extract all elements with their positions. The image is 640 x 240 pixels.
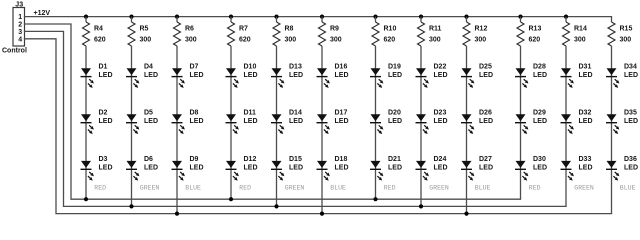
svg-text:4: 4 bbox=[18, 36, 22, 43]
wire R11 to GREEN bus bbox=[420, 46, 422, 206]
wire pin 3 to GREEN bus bbox=[25, 31, 567, 206]
svg-text:D23: D23 bbox=[434, 110, 447, 117]
svg-text:LED: LED bbox=[479, 118, 493, 125]
svg-text:GREEN: GREEN bbox=[140, 184, 160, 191]
svg-text:LED: LED bbox=[533, 72, 547, 79]
wire pin 2 to RED bus bbox=[25, 24, 521, 199]
wire R8 to GREEN bus bbox=[276, 46, 278, 206]
svg-text:LED: LED bbox=[624, 118, 638, 125]
wire rail to resistor R8 bbox=[276, 17, 278, 22]
svg-text:LED: LED bbox=[434, 118, 448, 125]
svg-text:D8: D8 bbox=[190, 110, 199, 117]
svg-text:LED: LED bbox=[144, 118, 158, 125]
wire R10 to RED bus bbox=[375, 46, 377, 199]
svg-text:LED: LED bbox=[624, 165, 638, 172]
svg-text:R8: R8 bbox=[285, 26, 294, 33]
LED D15 bbox=[271, 156, 303, 181]
LED D26 bbox=[461, 110, 493, 135]
wire rail to resistor R6 bbox=[176, 17, 178, 22]
junction dot D3 cathode on RED bus bbox=[84, 197, 88, 201]
svg-text:LED: LED bbox=[289, 118, 303, 125]
LED D30 bbox=[515, 156, 547, 181]
svg-text:LED: LED bbox=[190, 118, 204, 125]
svg-text:D3: D3 bbox=[99, 156, 108, 163]
svg-text:D14: D14 bbox=[289, 110, 302, 117]
junction dot column 9 on +12V rail bbox=[464, 15, 468, 19]
wire pin 4 to BLUE bus bbox=[25, 39, 612, 214]
svg-text:D33: D33 bbox=[579, 156, 592, 163]
svg-text:300: 300 bbox=[429, 37, 441, 44]
svg-text:D28: D28 bbox=[533, 63, 546, 70]
svg-text:D36: D36 bbox=[624, 156, 637, 163]
svg-text:LED: LED bbox=[434, 165, 448, 172]
resistor R11 value 300 bbox=[418, 22, 442, 46]
resistor R13 value 620 bbox=[517, 22, 541, 46]
svg-text:LED: LED bbox=[99, 72, 113, 79]
LED D31 bbox=[561, 63, 593, 88]
LED D14 bbox=[271, 110, 303, 135]
LED D7 bbox=[172, 63, 204, 88]
svg-text:D11: D11 bbox=[244, 110, 257, 117]
resistor R5 value 300 bbox=[128, 22, 151, 46]
wire R4 to RED bus bbox=[85, 46, 87, 199]
svg-text:D10: D10 bbox=[244, 63, 257, 70]
svg-text:D19: D19 bbox=[388, 63, 401, 70]
svg-text:D27: D27 bbox=[479, 156, 492, 163]
LED D8 bbox=[172, 110, 204, 135]
svg-text:R7: R7 bbox=[239, 26, 248, 33]
wire R7 to RED bus bbox=[230, 46, 232, 199]
wire R14 to GREEN bus bbox=[565, 46, 567, 206]
svg-text:GREEN: GREEN bbox=[574, 184, 594, 191]
junction dot column 1 on +12V rail bbox=[84, 15, 88, 19]
svg-text:R4: R4 bbox=[94, 26, 103, 33]
junction dot column 2 on +12V rail bbox=[129, 15, 133, 19]
resistor R6 value 300 bbox=[174, 22, 197, 46]
svg-text:D2: D2 bbox=[99, 110, 108, 117]
svg-text:D5: D5 bbox=[144, 110, 153, 117]
svg-text:D12: D12 bbox=[244, 156, 257, 163]
LED D23 bbox=[416, 110, 448, 135]
svg-text:620: 620 bbox=[94, 37, 106, 44]
svg-text:D1: D1 bbox=[99, 63, 108, 70]
LED D6 bbox=[126, 156, 158, 181]
svg-text:LED: LED bbox=[190, 72, 204, 79]
svg-text:R9: R9 bbox=[330, 26, 339, 33]
svg-text:LED: LED bbox=[388, 118, 402, 125]
svg-text:LED: LED bbox=[579, 118, 593, 125]
svg-text:D25: D25 bbox=[479, 63, 492, 70]
junction dot column 4 on +12V rail bbox=[229, 15, 233, 19]
junction dot D12 cathode on RED bus bbox=[229, 197, 233, 201]
resistor R7 value 620 bbox=[228, 22, 251, 46]
LED D29 bbox=[515, 110, 547, 135]
LED D28 bbox=[515, 63, 547, 88]
LED D16 bbox=[317, 63, 349, 88]
svg-text:D17: D17 bbox=[335, 110, 348, 117]
LED D35 bbox=[606, 110, 638, 135]
svg-text:1: 1 bbox=[18, 14, 22, 21]
wire rail to resistor R12 bbox=[466, 17, 468, 22]
junction dot D6 cathode on GREEN bus bbox=[129, 204, 133, 208]
svg-text:+12V: +12V bbox=[34, 10, 51, 17]
LED D20 bbox=[370, 110, 402, 135]
svg-text:LED: LED bbox=[144, 165, 158, 172]
svg-text:RED: RED bbox=[529, 184, 541, 191]
svg-text:D26: D26 bbox=[479, 110, 492, 117]
wire rail to resistor R13 bbox=[520, 17, 522, 22]
svg-text:D31: D31 bbox=[579, 63, 592, 70]
svg-text:R10: R10 bbox=[384, 26, 397, 33]
wire R12 to BLUE bus bbox=[466, 46, 468, 214]
LED D13 bbox=[271, 63, 303, 88]
wire rail to resistor R5 bbox=[131, 17, 133, 22]
LED D22 bbox=[416, 63, 448, 88]
junction dot column 5 on +12V rail bbox=[274, 15, 278, 19]
resistor R15 value 300 bbox=[608, 22, 632, 46]
LED D1 bbox=[81, 63, 113, 88]
junction dot D27 cathode on BLUE bus bbox=[464, 212, 468, 216]
svg-text:LED: LED bbox=[479, 72, 493, 79]
wire rail to resistor R14 bbox=[565, 17, 567, 22]
wire rail to resistor R15 bbox=[611, 17, 613, 22]
svg-text:300: 300 bbox=[330, 37, 342, 44]
junction dot D21 cathode on RED bus bbox=[373, 197, 377, 201]
svg-text:300: 300 bbox=[140, 37, 152, 44]
svg-text:LED: LED bbox=[579, 72, 593, 79]
svg-text:BLUE: BLUE bbox=[475, 184, 491, 191]
svg-text:LED: LED bbox=[99, 165, 113, 172]
wire R9 to BLUE bus bbox=[321, 46, 323, 214]
LED D5 bbox=[126, 110, 158, 135]
svg-text:LED: LED bbox=[99, 118, 113, 125]
wire rail to resistor R7 bbox=[230, 17, 232, 22]
svg-text:D16: D16 bbox=[335, 63, 348, 70]
LED D10 bbox=[226, 63, 258, 88]
wire rail to resistor R9 bbox=[321, 17, 323, 22]
LED D24 bbox=[416, 156, 448, 181]
svg-text:300: 300 bbox=[285, 37, 297, 44]
svg-text:D6: D6 bbox=[144, 156, 153, 163]
svg-text:GREEN: GREEN bbox=[429, 184, 449, 191]
wire rail to resistor R10 bbox=[375, 17, 377, 22]
svg-text:620: 620 bbox=[529, 37, 541, 44]
svg-text:D4: D4 bbox=[144, 63, 153, 70]
svg-text:D32: D32 bbox=[579, 110, 592, 117]
svg-text:D13: D13 bbox=[289, 63, 302, 70]
svg-text:J3: J3 bbox=[15, 1, 23, 8]
svg-text:RED: RED bbox=[239, 184, 251, 191]
svg-text:LED: LED bbox=[434, 72, 448, 79]
svg-text:D9: D9 bbox=[190, 156, 199, 163]
svg-text:LED: LED bbox=[533, 165, 547, 172]
junction dot D15 cathode on GREEN bus bbox=[274, 204, 278, 208]
LED D34 bbox=[606, 63, 638, 88]
svg-text:LED: LED bbox=[533, 118, 547, 125]
svg-text:R14: R14 bbox=[574, 26, 587, 33]
svg-text:LED: LED bbox=[289, 165, 303, 172]
LED D21 bbox=[370, 156, 402, 181]
LED D32 bbox=[561, 110, 593, 135]
svg-text:BLUE: BLUE bbox=[330, 184, 346, 191]
svg-text:300: 300 bbox=[574, 37, 586, 44]
svg-text:R11: R11 bbox=[429, 26, 442, 33]
svg-text:R15: R15 bbox=[620, 26, 633, 33]
svg-text:D20: D20 bbox=[388, 110, 401, 117]
svg-text:D29: D29 bbox=[533, 110, 546, 117]
svg-text:3: 3 bbox=[18, 29, 22, 36]
svg-text:BLUE: BLUE bbox=[620, 184, 636, 191]
resistor R8 value 300 bbox=[273, 22, 296, 46]
resistor R9 value 300 bbox=[319, 22, 342, 46]
svg-text:D22: D22 bbox=[434, 63, 447, 70]
LED D18 bbox=[317, 156, 349, 181]
svg-text:BLUE: BLUE bbox=[185, 184, 201, 191]
junction dot column 7 on +12V rail bbox=[373, 15, 377, 19]
LED D25 bbox=[461, 63, 493, 88]
svg-text:LED: LED bbox=[289, 72, 303, 79]
LED D3 bbox=[81, 156, 113, 181]
resistor R12 value 300 bbox=[463, 22, 487, 46]
svg-text:300: 300 bbox=[185, 37, 197, 44]
svg-text:GREEN: GREEN bbox=[285, 184, 305, 191]
wire R5 to GREEN bus bbox=[131, 46, 133, 206]
wire rail to resistor R4 bbox=[85, 17, 87, 22]
svg-text:LED: LED bbox=[388, 72, 402, 79]
svg-text:LED: LED bbox=[335, 118, 349, 125]
junction dot D24 cathode on GREEN bus bbox=[419, 204, 423, 208]
svg-text:LED: LED bbox=[190, 165, 204, 172]
LED D9 bbox=[172, 156, 204, 181]
svg-text:R12: R12 bbox=[475, 26, 488, 33]
svg-text:D15: D15 bbox=[289, 156, 302, 163]
svg-text:LED: LED bbox=[244, 118, 258, 125]
svg-text:LED: LED bbox=[335, 72, 349, 79]
LED D19 bbox=[370, 63, 402, 88]
resistor R4 value 620 bbox=[83, 22, 106, 46]
svg-text:D35: D35 bbox=[624, 110, 637, 117]
wire rail to resistor R11 bbox=[420, 17, 422, 22]
svg-text:300: 300 bbox=[475, 37, 487, 44]
LED D11 bbox=[226, 110, 258, 135]
svg-text:LED: LED bbox=[144, 72, 158, 79]
junction dot D9 cathode on BLUE bus bbox=[175, 212, 179, 216]
LED D12 bbox=[226, 156, 258, 181]
wire R13 to RED bus bbox=[520, 46, 522, 199]
svg-text:R6: R6 bbox=[185, 26, 194, 33]
junction dot column 8 on +12V rail bbox=[419, 15, 423, 19]
svg-text:D30: D30 bbox=[533, 156, 546, 163]
svg-text:D21: D21 bbox=[388, 156, 401, 163]
junction dot D18 cathode on BLUE bus bbox=[320, 212, 324, 216]
LED D4 bbox=[126, 63, 158, 88]
svg-text:LED: LED bbox=[479, 165, 493, 172]
svg-text:LED: LED bbox=[244, 165, 258, 172]
svg-text:D18: D18 bbox=[335, 156, 348, 163]
wire +12V rail (pin 1) bbox=[25, 16, 612, 18]
svg-text:LED: LED bbox=[579, 165, 593, 172]
LED D36 bbox=[606, 156, 638, 181]
wire R15 to BLUE bus bbox=[611, 46, 613, 214]
junction dot column 6 on +12V rail bbox=[320, 15, 324, 19]
LED D33 bbox=[561, 156, 593, 181]
junction dot column 3 on +12V rail bbox=[175, 15, 179, 19]
wire R6 to BLUE bus bbox=[176, 46, 178, 214]
svg-text:LED: LED bbox=[244, 72, 258, 79]
LED D27 bbox=[461, 156, 493, 181]
svg-text:D24: D24 bbox=[434, 156, 447, 163]
resistor R14 value 300 bbox=[563, 22, 587, 46]
svg-text:LED: LED bbox=[624, 72, 638, 79]
resistor R10 value 620 bbox=[372, 22, 396, 46]
connector J3 bbox=[2, 1, 27, 54]
junction dot column 11 on +12V rail bbox=[564, 15, 568, 19]
svg-text:620: 620 bbox=[239, 37, 251, 44]
svg-text:Control: Control bbox=[2, 48, 27, 55]
svg-text:RED: RED bbox=[94, 184, 106, 191]
LED D2 bbox=[81, 110, 113, 135]
svg-text:RED: RED bbox=[384, 184, 396, 191]
svg-text:D34: D34 bbox=[624, 63, 637, 70]
svg-text:300: 300 bbox=[620, 37, 632, 44]
svg-text:620: 620 bbox=[384, 37, 396, 44]
svg-text:R5: R5 bbox=[140, 26, 149, 33]
junction dot column 10 on +12V rail bbox=[518, 15, 522, 19]
svg-text:2: 2 bbox=[18, 22, 22, 29]
svg-text:D7: D7 bbox=[190, 63, 199, 70]
svg-text:R13: R13 bbox=[529, 26, 542, 33]
LED D17 bbox=[317, 110, 349, 135]
svg-text:LED: LED bbox=[335, 165, 349, 172]
svg-text:LED: LED bbox=[388, 165, 402, 172]
